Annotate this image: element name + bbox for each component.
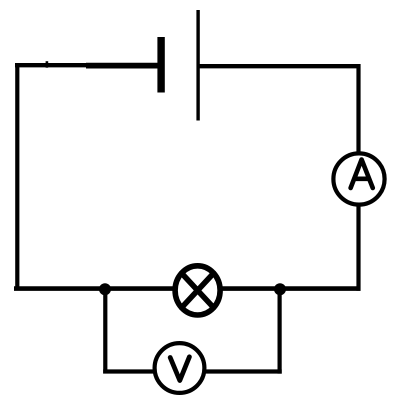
wire left vertical	[15, 63, 19, 290]
wire branch bottom-right horizontal	[206, 369, 282, 373]
node right junction dot	[274, 283, 286, 295]
battery B1 negative plate (short thick)	[157, 37, 164, 93]
ammeter A1 letter A	[351, 160, 373, 189]
wire left branch vertical	[103, 289, 107, 373]
node left junction dot	[99, 283, 111, 295]
wire right branch vertical	[278, 289, 282, 373]
lamp L1 cross (X)	[182, 273, 214, 307]
wire top-left horizontal	[15, 63, 158, 67]
lamp L1 circle	[175, 266, 220, 315]
wire bottom-left horizontal	[14, 286, 173, 291]
ammeter A1 circle	[333, 153, 384, 204]
battery B1 positive plate (long thin)	[196, 10, 199, 121]
wire right vertical lower	[356, 206, 360, 291]
voltmeter V1 letter V	[170, 357, 189, 381]
wire branch bottom-left horizontal	[103, 369, 154, 373]
wire top-left tick (scan mark)	[46, 61, 49, 67]
voltmeter V1 circle	[155, 343, 205, 393]
wire top-right horizontal	[199, 64, 361, 68]
wire bottom-right horizontal	[222, 286, 361, 291]
wire right vertical upper	[356, 64, 360, 153]
